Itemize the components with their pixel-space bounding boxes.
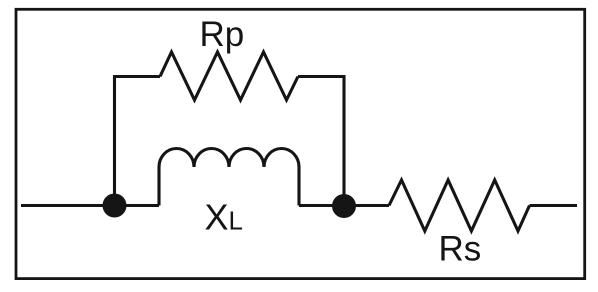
wire Rp branch left riser bbox=[115, 77, 161, 206]
resistor Rs bbox=[389, 180, 530, 231]
inductor XL bbox=[159, 149, 299, 206]
node junction left bbox=[103, 194, 127, 218]
wire Rp branch right riser bbox=[298, 77, 344, 206]
wire middle segment bbox=[299, 204, 389, 207]
wire right lead bbox=[530, 204, 578, 207]
node junction right bbox=[332, 194, 356, 218]
wire left lead bbox=[21, 204, 159, 207]
svg-text:Rs: Rs bbox=[439, 230, 482, 269]
resistor Rp bbox=[160, 52, 298, 100]
svg-text:Rp: Rp bbox=[200, 15, 245, 54]
